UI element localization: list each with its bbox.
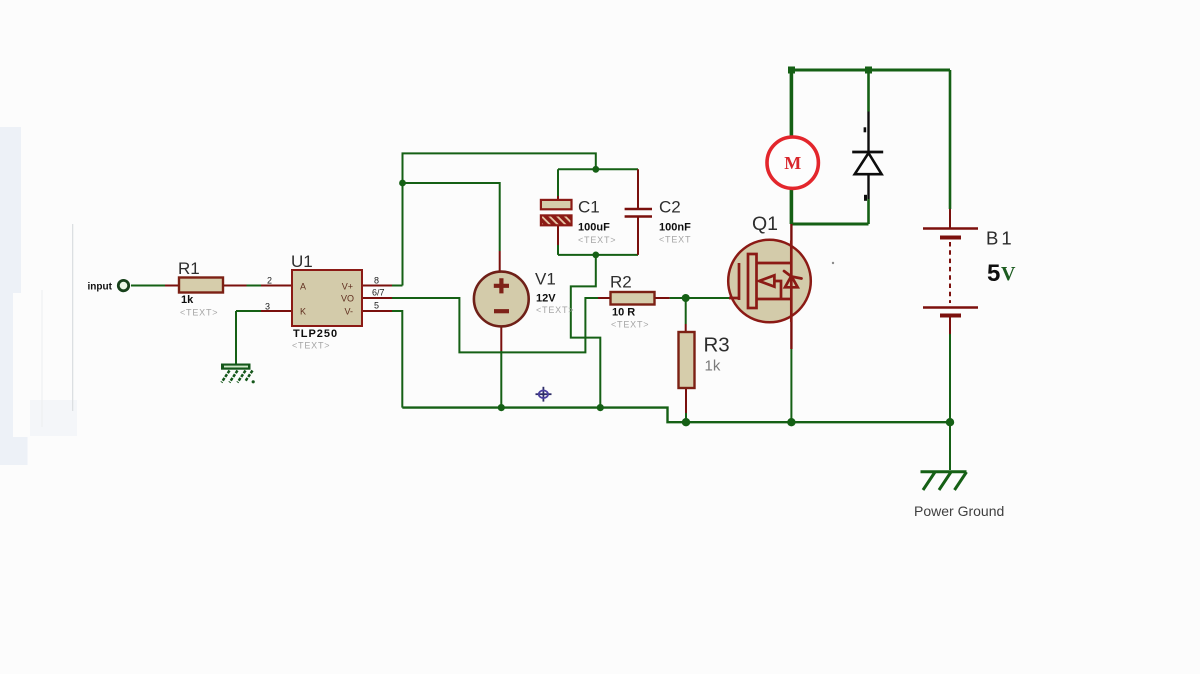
svg-text:<TEXT>: <TEXT> (536, 305, 574, 315)
svg-text:U1: U1 (291, 252, 313, 271)
svg-text:R1: R1 (178, 259, 200, 278)
svg-text:100uF: 100uF (578, 222, 610, 234)
svg-text:C1: C1 (578, 198, 600, 217)
svg-text:input: input (88, 282, 113, 293)
svg-text:V1: V1 (535, 270, 556, 289)
svg-text:6/7: 6/7 (372, 288, 385, 298)
svg-text:1k: 1k (181, 294, 194, 306)
svg-text:B1: B1 (986, 228, 1015, 249)
svg-text:K: K (300, 307, 306, 317)
svg-text:TLP250: TLP250 (293, 328, 338, 340)
svg-text:V-: V- (344, 307, 353, 317)
svg-text:8: 8 (374, 276, 379, 286)
svg-text:A: A (300, 282, 306, 292)
svg-text:<TEXT>: <TEXT> (292, 341, 330, 351)
svg-text:<TEXT>: <TEXT> (578, 235, 616, 245)
svg-text:12V: 12V (536, 293, 556, 305)
svg-text:R3: R3 (704, 334, 730, 357)
svg-text:Q1: Q1 (752, 213, 778, 235)
svg-text:3: 3 (265, 302, 270, 312)
svg-text:M: M (784, 153, 801, 173)
svg-text:R2: R2 (610, 273, 632, 292)
svg-text:5: 5 (374, 301, 379, 311)
svg-text:100nF: 100nF (659, 222, 691, 234)
svg-text:V: V (1001, 263, 1016, 285)
svg-text:10 R: 10 R (612, 307, 635, 319)
svg-text:2: 2 (267, 276, 272, 286)
svg-text:<TEXT: <TEXT (659, 235, 691, 245)
svg-text:1k: 1k (705, 358, 721, 375)
svg-text:5: 5 (987, 260, 1000, 287)
svg-text:<TEXT>: <TEXT> (611, 320, 649, 330)
svg-text:C2: C2 (659, 198, 681, 217)
svg-text:<TEXT>: <TEXT> (180, 308, 218, 318)
svg-text:Power Ground: Power Ground (914, 503, 1004, 519)
svg-text:V+: V+ (342, 282, 353, 292)
svg-text:VO: VO (341, 294, 354, 304)
